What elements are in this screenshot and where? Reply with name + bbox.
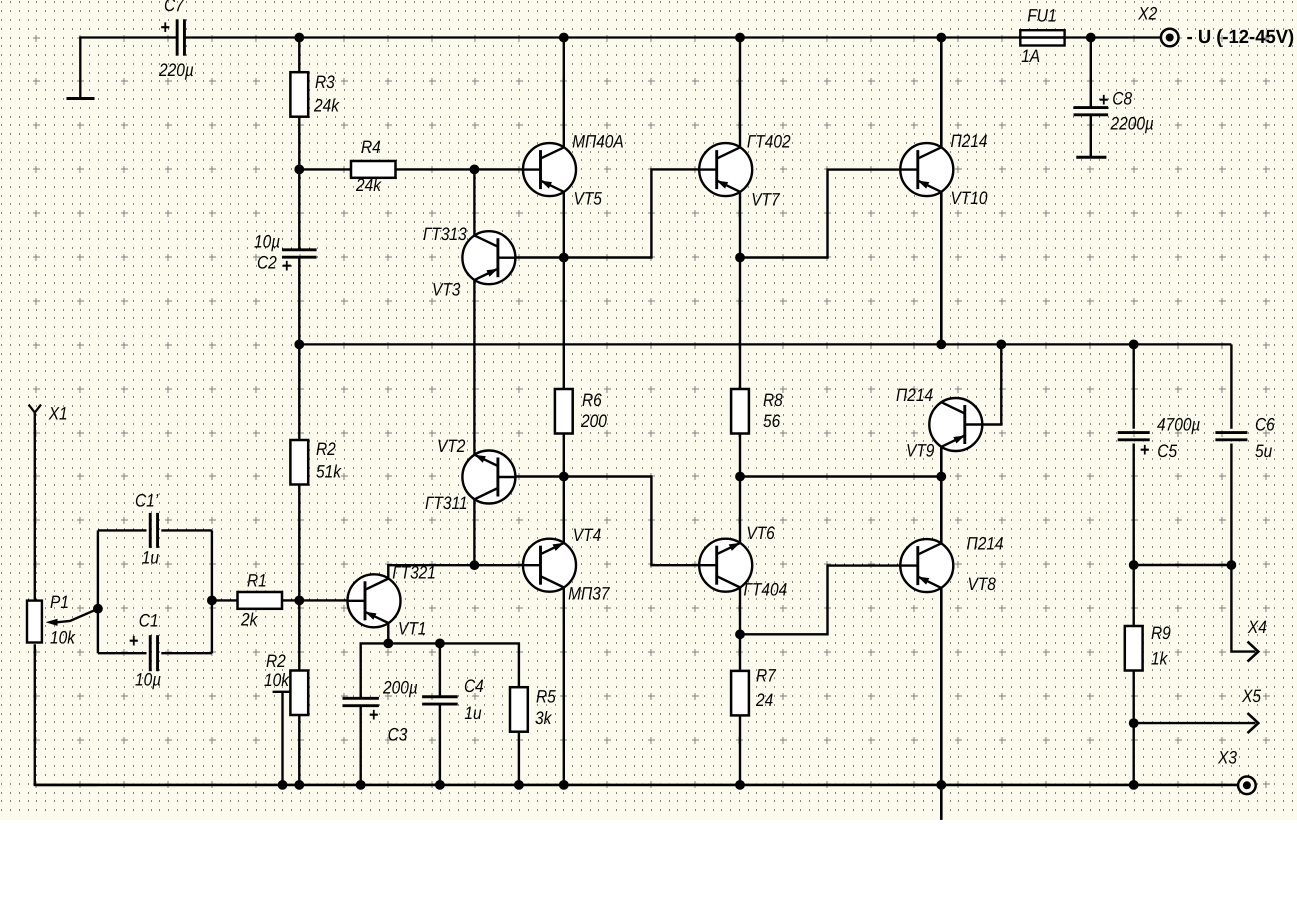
svg-text:X2: X2 [1137, 4, 1157, 24]
node junction R3/R4 [294, 165, 304, 175]
wire C4 bottom lead [439, 704, 441, 785]
wire VT3 emitter down [473, 280, 475, 455]
svg-text:X3: X3 [1217, 748, 1237, 768]
label C6 [1255, 415, 1276, 435]
label R6 [582, 390, 603, 410]
label C8 [1112, 89, 1132, 109]
node junction R4 / VT5 base / VT3 [470, 165, 480, 175]
label VT1 designator [398, 619, 426, 639]
transistor VT7 (ГТ402) [699, 143, 752, 196]
wire R7 bottom lead [739, 715, 741, 785]
wire top supply rail main segment [185, 36, 1020, 38]
svg-text:P1: P1 [50, 592, 69, 612]
label 56 value of R8 [763, 411, 781, 431]
svg-text:2200µ: 2200µ [1110, 113, 1154, 133]
capacitor C4 plates [422, 697, 458, 704]
resistor R3 [290, 72, 308, 117]
label FU1 [1027, 5, 1056, 25]
label R9 [1151, 623, 1171, 643]
svg-text:R1: R1 [247, 571, 267, 591]
label VT4 [573, 525, 601, 545]
wire bottom ground bus [35, 784, 1238, 787]
resistor R1 [238, 592, 283, 609]
label 51k value [316, 462, 342, 482]
transistor VT5 (МП40А) [523, 143, 576, 196]
node junction mid rail / C5 [1129, 340, 1139, 350]
wire R9 bottom lead [1132, 671, 1134, 724]
resistor R6 [555, 389, 573, 434]
label 4700µ value of C5 [1157, 415, 1200, 435]
label 24k value of R3 [313, 96, 340, 116]
svg-text:- U (-12-45V): - U (-12-45V) [1187, 27, 1295, 48]
wire C6 bottom lead [1230, 444, 1232, 566]
wire top rail fuse to X2 [1065, 36, 1161, 38]
wire R6 column upper [563, 258, 565, 390]
capacitor C1' plates [150, 513, 157, 548]
svg-text:24k: 24k [355, 175, 382, 195]
label X1 [48, 403, 68, 423]
node junction VT1 collector / VT2 collector / VT4 base [470, 560, 480, 570]
wire R3 bottom lead [298, 117, 300, 170]
label 2200µ value of C8 [1110, 113, 1154, 133]
label 24 value of R7 [755, 690, 773, 710]
label 10k value [264, 670, 290, 690]
label VT3 [432, 280, 460, 300]
wire X5 from R9 node [1134, 722, 1256, 724]
svg-text:10µ: 10µ [254, 232, 280, 252]
wire VT4 collector up [563, 477, 565, 543]
label МП40А type of VT5 [572, 132, 624, 152]
wiper leg wire of R2 10k [281, 692, 283, 785]
label VT5 [573, 189, 602, 209]
node junction mid rail / VT9 base [996, 340, 1006, 350]
wire VT9 emitter down [940, 447, 943, 477]
transistor VT4 (МП37) [523, 539, 576, 592]
wire R9 top lead [1132, 565, 1134, 626]
wire R2 10k top lead [298, 600, 300, 670]
ground symbol (top-left) [67, 97, 95, 100]
wire VT4 emitter down to bus [563, 588, 565, 785]
label + of C5 [1140, 440, 1150, 461]
svg-text:10k: 10k [264, 670, 290, 690]
svg-text:ГТ404: ГТ404 [743, 580, 787, 600]
label 220µ value of C7 [158, 60, 194, 80]
wire VT7 collector to top rail [739, 38, 741, 148]
svg-text:R9: R9 [1151, 623, 1171, 643]
wire mid rail [299, 343, 1231, 345]
wire loop bottom left segment [98, 652, 147, 654]
transistor VT10 (П214) [900, 143, 953, 196]
wire VT5 emitter down [563, 192, 565, 258]
svg-text:VT5: VT5 [573, 189, 602, 209]
wire R2 10k bottom lead [298, 715, 300, 785]
wire R1 right lead [282, 599, 299, 601]
svg-text:VT7: VT7 [751, 190, 780, 210]
wire VT10 emitter to mid rail [940, 192, 943, 345]
svg-text:R3: R3 [315, 72, 335, 92]
node junction VT1 emitter [383, 639, 393, 649]
node junction mid rail / VT10-VT9 [936, 340, 946, 350]
svg-text:R5: R5 [536, 687, 557, 707]
label VT8 designator [968, 574, 996, 594]
svg-text:ГТ311: ГТ311 [425, 493, 468, 513]
wire C4 top lead [439, 643, 441, 697]
svg-text:200µ: 200µ [382, 678, 418, 698]
terminal X1 fork [29, 405, 41, 413]
svg-text:+: + [1140, 440, 1150, 461]
wire stub below bus at VT8 emitter [940, 785, 943, 820]
svg-text:10k: 10k [50, 628, 76, 648]
svg-text:R7: R7 [756, 665, 777, 685]
capacitor C6 plates [1215, 433, 1247, 440]
wire loop bottom right segment [161, 652, 212, 654]
label VT7 [751, 190, 780, 210]
wire mid rail corner down to C6 [1230, 344, 1232, 428]
label 10µ value of C2 [254, 232, 280, 252]
svg-text:3k: 3k [535, 708, 552, 728]
wire R2 51k top lead [298, 344, 300, 440]
label VT9 designator [906, 441, 934, 461]
wire C5 top lead [1132, 344, 1134, 428]
wire R6 bottom lead [563, 434, 565, 477]
label 200µ value of C3 [382, 678, 418, 698]
node junction loop right / R1 [207, 596, 217, 606]
wire VT5 base lead [474, 168, 523, 170]
label П214 type of VT9 [896, 385, 933, 405]
wire VT2 base lead right [515, 475, 563, 477]
node junction bus / R7 [735, 780, 745, 790]
wire R4 left lead [299, 168, 351, 170]
wire VT1 base lead [299, 599, 348, 601]
label R8 [763, 390, 783, 410]
label МП37 type of VT4 [568, 584, 610, 604]
label ГТ321 type of VT1 [392, 563, 436, 583]
wire VT4 base lead [474, 564, 523, 566]
wire loop right vertical [211, 530, 213, 653]
svg-text:+: + [282, 256, 292, 277]
svg-text:П214: П214 [950, 131, 987, 151]
label 1k value of R9 [1151, 648, 1168, 668]
node junction bus / VT4 emitter [559, 780, 569, 790]
wire VT7 emitter down [739, 192, 741, 258]
node junction loop / P1 wiper [93, 604, 103, 614]
wire X4 from C6 node [1231, 565, 1255, 652]
label + of C1 [129, 631, 139, 652]
capacitor C8 plates [1074, 108, 1109, 115]
wire R7 top lead [739, 634, 741, 671]
resistor R5 [510, 687, 528, 732]
label 3k value of R5 [535, 708, 552, 728]
wire C2 bottom lead [298, 257, 300, 344]
svg-text:ГТ402: ГТ402 [747, 132, 791, 152]
wire R8 bottom lead [739, 434, 741, 477]
svg-text:R6: R6 [582, 390, 603, 410]
label + of C8 [1099, 90, 1109, 111]
wire VT8 emitter down to bus [940, 588, 943, 785]
wire R8 node to VT9 node [740, 475, 941, 477]
wire VT9 base right and up [982, 344, 1001, 424]
label П214 type of VT10 [950, 131, 987, 151]
svg-text:2k: 2k [240, 610, 258, 630]
terminal X3 [1238, 777, 1256, 795]
node junction C4 branch [435, 639, 445, 649]
node junction mid rail / left column [294, 340, 304, 350]
node junction bus / C4 [435, 780, 445, 790]
svg-text:10µ: 10µ [135, 670, 161, 690]
label ГТ313 type of VT3 [423, 224, 467, 244]
wire VT1 collector up and right [388, 565, 474, 578]
label ГТ404 type of VT6 [743, 580, 787, 600]
wiper arrow of P1 [46, 609, 98, 626]
svg-text:VT4: VT4 [573, 525, 601, 545]
label R2 (51k) [316, 439, 336, 459]
wire ground drop at top-left [79, 36, 81, 98]
node junction bus / left column [294, 780, 304, 790]
wire VT10 collector to top rail [940, 38, 943, 148]
svg-text:МП37: МП37 [568, 584, 610, 604]
wire VT2 base node step down to VT6 [564, 477, 699, 566]
svg-text:+: + [161, 18, 171, 39]
node junction bus / R2-10k wiper [278, 780, 288, 790]
node junction bus / R9 [1129, 780, 1139, 790]
wire VT8 collector up [940, 477, 943, 544]
svg-text:X1: X1 [48, 403, 68, 423]
svg-text:5u: 5u [1255, 441, 1272, 461]
svg-text:R2: R2 [316, 439, 336, 459]
node junction VT6 collector / R7 [735, 629, 745, 639]
resistor R4 [351, 161, 396, 178]
wire VT6 node step up to VT8 base [740, 566, 901, 635]
node junction C5 / R9 [1129, 560, 1139, 570]
svg-text:VT3: VT3 [432, 280, 460, 300]
transistor VT8 (П214) [900, 539, 953, 592]
wire R4 right lead [396, 168, 475, 170]
svg-text:VT1: VT1 [398, 619, 426, 639]
wire C2 top lead [298, 169, 300, 250]
wire R9 node to bus [1132, 723, 1134, 785]
svg-text:R8: R8 [763, 390, 783, 410]
capacitor C7 plates [177, 19, 184, 55]
node junction VT9 emitter / R8 row [936, 472, 946, 482]
svg-text:П214: П214 [896, 385, 933, 405]
wire C8 bottom lead [1090, 115, 1092, 157]
node junction top rail / R3 [294, 33, 304, 43]
svg-text:ГТ313: ГТ313 [423, 224, 467, 244]
transistor VT9 (П214) [929, 398, 982, 451]
svg-text:24k: 24k [313, 96, 340, 116]
svg-text:24: 24 [755, 690, 773, 710]
label C4 [464, 676, 484, 696]
label P1 [50, 592, 69, 612]
node junction VT5 emitter / VT3 base [559, 253, 569, 263]
label ГТ311 type of VT2 [425, 493, 468, 513]
label C3 [388, 725, 408, 745]
node junction C6 / X4 [1227, 560, 1237, 570]
svg-text:C2: C2 [257, 253, 277, 273]
svg-text:+: + [1099, 90, 1109, 111]
node junction top rail / C8 [1086, 33, 1096, 43]
resistor R9 [1125, 626, 1143, 671]
label 1u value of C4 [464, 703, 481, 723]
node junction bus / VT8 emitter [936, 780, 946, 790]
transistor VT1 (ГТ321) [348, 574, 401, 627]
svg-text:51k: 51k [316, 462, 342, 482]
label R4 [361, 137, 381, 157]
wire top supply rail left segment [80, 36, 176, 38]
label VT10 [950, 188, 987, 208]
label 10µ value of C1 [135, 670, 161, 690]
label - U (-12-45V) supply voltage [1187, 27, 1295, 48]
arrow X5 [1248, 713, 1259, 733]
svg-text:C1’: C1’ [135, 491, 159, 511]
label 1A value of FU1 [1021, 46, 1040, 66]
label П214 type of VT8 [967, 534, 1004, 554]
label X5 [1241, 686, 1262, 706]
svg-text:C8: C8 [1112, 89, 1132, 109]
wire loop left vertical [97, 530, 99, 653]
svg-text:VT9: VT9 [906, 441, 934, 461]
resistor R2 (10k) [290, 671, 308, 716]
label R2 (10k) [266, 651, 286, 671]
wire X1 down to P1 [34, 413, 36, 600]
label R3 [315, 72, 335, 92]
svg-text:X5: X5 [1241, 686, 1262, 706]
svg-text:X4: X4 [1247, 617, 1267, 637]
svg-text:1u: 1u [464, 703, 481, 723]
node junction bus / C3 [356, 780, 366, 790]
label X4 [1247, 617, 1267, 637]
ground symbol below C8 [1076, 156, 1106, 159]
label C1' [135, 491, 159, 511]
label VT6 [746, 523, 775, 543]
svg-text:R2: R2 [266, 651, 286, 671]
label + of C2 [282, 256, 292, 277]
wire C5 bottom lead [1132, 444, 1134, 566]
wire R2 51k bottom lead [298, 485, 300, 601]
label X2 [1137, 4, 1157, 24]
wire R5 bottom lead [518, 732, 520, 785]
node junction R8 bottom / wire [735, 472, 745, 482]
wire C5-C6 bottom row [1134, 564, 1232, 566]
fuse FU1 [1020, 30, 1064, 45]
label 200 value of R6 [580, 411, 607, 431]
wire VT6 collector down [739, 588, 741, 635]
svg-text:1A: 1A [1021, 46, 1040, 66]
node junction top rail / VT10 collector [936, 33, 946, 43]
svg-text:VT6: VT6 [746, 523, 775, 543]
label 5u value of C6 [1255, 441, 1272, 461]
label R5 [536, 687, 557, 707]
svg-text:220µ: 220µ [158, 60, 194, 80]
wire C8 top lead [1090, 38, 1092, 109]
node junction top rail / VT7 collector [735, 33, 745, 43]
capacitor C1 plates [150, 635, 157, 671]
wire VT2 collector down [473, 499, 475, 565]
svg-text:VT8: VT8 [968, 574, 996, 594]
svg-text:FU1: FU1 [1027, 5, 1056, 25]
terminal X2 [1161, 29, 1179, 47]
wiper stub of R2 10k [273, 691, 291, 693]
label C1 [139, 611, 159, 631]
svg-text:1k: 1k [1151, 648, 1168, 668]
resistor R2 (51k) [290, 440, 308, 485]
label 24k value of R4 [355, 175, 382, 195]
transistor VT2 (ГТ311) [462, 451, 515, 504]
svg-text:C4: C4 [464, 676, 484, 696]
label X3 [1217, 748, 1237, 768]
node junction R1 / VT1 base / column [294, 596, 304, 606]
svg-text:C6: C6 [1255, 415, 1276, 435]
resistor R7 [731, 671, 749, 716]
svg-text:C1: C1 [139, 611, 159, 631]
svg-text:1u: 1u [142, 548, 159, 568]
node junction bus / R5 [514, 780, 524, 790]
resistor R8 [731, 389, 749, 434]
svg-text:56: 56 [763, 411, 781, 431]
label C5 [1157, 441, 1178, 461]
svg-text:+: + [369, 705, 379, 726]
wire VT3 collector up to R4 node [473, 169, 475, 235]
svg-text:VT10: VT10 [950, 188, 987, 208]
capacitor C2 plates [282, 250, 317, 257]
svg-text:200: 200 [580, 411, 607, 431]
wire P1 bottom to bus [35, 644, 97, 785]
label VT2 [437, 436, 465, 456]
svg-text:VT2: VT2 [437, 436, 465, 456]
svg-text:+: + [129, 631, 139, 652]
label 10k value of P1 [50, 628, 76, 648]
wire R1 left lead [212, 599, 238, 601]
label + of C3 [369, 705, 379, 726]
wire VT3 base node to step corner [564, 169, 700, 257]
wire loop top right segment [161, 529, 212, 531]
wire emitter row C3-C4-R5 [361, 643, 519, 698]
capacitor C3 plates [343, 698, 379, 705]
node junction R6 / VT2 base [559, 472, 569, 482]
svg-text:R4: R4 [361, 137, 381, 157]
potentiometer P1 body [27, 601, 42, 643]
svg-text:C5: C5 [1157, 441, 1178, 461]
label R7 [756, 665, 777, 685]
svg-text:П214: П214 [967, 534, 1004, 554]
wire VT6 emitter column [739, 477, 741, 544]
label 2k value of R1 [240, 610, 258, 630]
wire VT3 base lead right [515, 256, 563, 258]
svg-text:МП40А: МП40А [572, 132, 624, 152]
node junction VT7 emitter [735, 253, 745, 263]
label + of C7 [161, 18, 171, 39]
node junction top rail / VT5 collector [559, 33, 569, 43]
svg-text:C7: C7 [164, 0, 185, 15]
transistor VT3 (ГТ313) [462, 231, 515, 284]
label 1u value of C1' [142, 548, 159, 568]
label ГТ402 type of VT7 [747, 132, 791, 152]
wire C3 bottom lead [360, 706, 362, 785]
node junction R9 / X5 [1129, 718, 1139, 728]
wire loop top left segment [98, 529, 147, 531]
capacitor C5 plates [1118, 433, 1150, 440]
label C7 [164, 0, 185, 15]
wire VT5 collector to top rail [563, 38, 565, 148]
label R1 [247, 571, 267, 591]
transistor VT6 (ГТ404) [699, 539, 752, 592]
svg-text:4700µ: 4700µ [1157, 415, 1200, 435]
arrow X4 [1248, 642, 1259, 662]
wire R8 column upper [739, 258, 741, 390]
label C2 [257, 253, 277, 273]
wire VT7 emitter node to VT10 base [740, 170, 901, 258]
wire R3 top lead [298, 38, 300, 73]
